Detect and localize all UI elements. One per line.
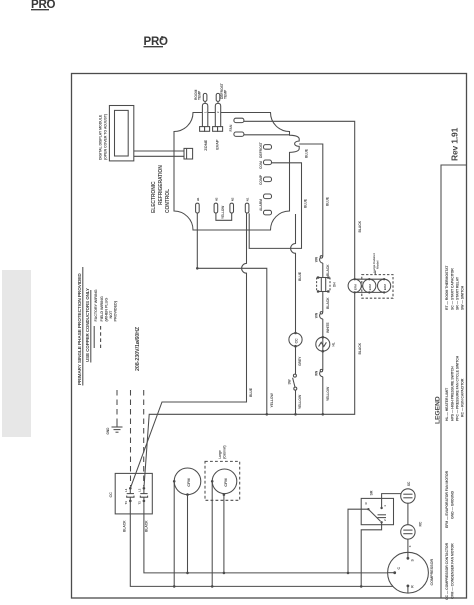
svg-text:FACTORY WIRING: FACTORY WIRING xyxy=(94,289,98,321)
svg-text:BLUE: BLUE xyxy=(303,198,307,208)
wire SC to RC xyxy=(407,503,409,525)
svg-text:WN: WN xyxy=(314,370,318,376)
display connector xyxy=(184,148,193,159)
svg-text:BLACK: BLACK xyxy=(326,297,330,309)
svg-text:BLACK: BLACK xyxy=(123,520,127,532)
contact L2 T2 xyxy=(143,487,146,490)
svg-text:(Cabinet): (Cabinet) xyxy=(222,445,226,458)
svg-text:SW: SW xyxy=(288,379,292,384)
svg-text:BLACK: BLACK xyxy=(145,520,149,532)
svg-text:GND — GROUND: GND — GROUND xyxy=(451,491,455,519)
svg-text:N1: N1 xyxy=(246,197,250,201)
defrost temp probe xyxy=(215,93,220,126)
wire DH to WN2 xyxy=(322,292,324,313)
CC coil chain xyxy=(291,214,296,414)
svg-text:RC — RUN CAPACITOR: RC — RUN CAPACITOR xyxy=(461,378,465,417)
CFM motor 1 xyxy=(173,468,201,586)
svg-text:SW — SWITCH: SW — SWITCH xyxy=(461,285,465,310)
svg-text:Rev 1.91: Rev 1.91 xyxy=(450,127,460,161)
yellow jumper H2-N2 xyxy=(216,213,232,220)
svg-text:DH: DH xyxy=(333,282,337,287)
svg-text:BLACK: BLACK xyxy=(326,264,330,276)
DH chain: WN connector 1 xyxy=(314,256,322,263)
wire blue tab to DH chain top xyxy=(299,144,323,257)
field wiring sample xyxy=(100,326,102,348)
svg-text:BLUE: BLUE xyxy=(326,196,330,206)
svg-text:YELLOW: YELLOW xyxy=(326,386,330,401)
svg-text:H1: H1 xyxy=(196,197,200,201)
svg-text:(OPEN COVER TO ADJUST): (OPEN COVER TO ADJUST) xyxy=(104,113,108,160)
svg-text:YELLOW: YELLOW xyxy=(298,394,302,409)
svg-text:WN: WN xyxy=(314,312,318,318)
legend box xyxy=(441,165,467,598)
logo PRO top-left xyxy=(31,0,56,11)
right column slots: DEFROST COM COMP ALARM xyxy=(264,145,272,150)
svg-text:PFC — PRESSURE FAN CYCLE SWITC: PFC — PRESSURE FAN CYCLE SWITCH xyxy=(456,355,460,421)
logo PRO mid-top xyxy=(144,36,169,48)
factory wiring sample xyxy=(93,326,95,348)
svg-text:YELLOW: YELLOW xyxy=(221,206,225,219)
run capacitor RC xyxy=(401,521,423,539)
dashed box large cabinet CFM xyxy=(205,461,240,500)
svg-text:CC: CC xyxy=(109,492,113,498)
svg-text:YELLOW: YELLOW xyxy=(270,393,274,408)
svg-text:NOT: NOT xyxy=(109,310,113,319)
wire FAN slot2 to connector tab xyxy=(244,134,290,136)
svg-text:FAN: FAN xyxy=(229,124,233,131)
svg-text:HL — HEATER LIMIT: HL — HEATER LIMIT xyxy=(445,387,449,421)
svg-text:CFM: CFM xyxy=(223,478,228,487)
svg-text:ELECTRONIC: ELECTRONIC xyxy=(151,181,157,213)
svg-text:208-230V/1ø/60HZ: 208-230V/1ø/60HZ xyxy=(135,326,141,371)
svg-text:TEMP: TEMP xyxy=(224,89,228,99)
EFM motor circles xyxy=(348,278,391,294)
svg-text:COM: COM xyxy=(259,161,263,169)
field wiring dashed leads xyxy=(116,390,118,424)
svg-text:WN: WN xyxy=(314,256,318,262)
ground GND xyxy=(106,424,123,435)
svg-text:WHITE: WHITE xyxy=(326,322,330,333)
WN connector 2 xyxy=(314,312,322,319)
svg-text:EVAP: EVAP xyxy=(214,139,219,150)
room temp probe xyxy=(202,93,207,126)
svg-text:GREY: GREY xyxy=(298,356,302,366)
compressor contactor CC box xyxy=(109,473,152,514)
main border frame xyxy=(72,74,467,599)
svg-text:USE COPPER CONDUCTORS ONLY: USE COPPER CONDUCTORS ONLY xyxy=(85,288,90,362)
svg-text:FIELD WIRING: FIELD WIRING xyxy=(100,296,104,321)
svg-text:L2: L2 xyxy=(138,488,142,492)
svg-text:HL: HL xyxy=(332,342,336,346)
control block outline U1 xyxy=(174,113,299,231)
svg-text:BLACK: BLACK xyxy=(358,342,362,354)
bus B from T1 xyxy=(130,514,408,587)
digital display module xyxy=(109,106,133,161)
svg-text:PRIMARY SINGLE PHASE PROTECTIO: PRIMARY SINGLE PHASE PROTECTION PROVIDED xyxy=(77,273,82,385)
svg-text:N2: N2 xyxy=(230,197,234,201)
svg-text:H2: H2 xyxy=(215,197,219,201)
svg-text:BLUE: BLUE xyxy=(298,271,302,281)
svg-text:CC — COMPRESSOR CONTACTOR: CC — COMPRESSOR CONTACTOR xyxy=(445,542,449,600)
svg-text:CFM: CFM xyxy=(186,478,191,487)
legend row 1 xyxy=(445,265,449,600)
svg-text:BLUE: BLUE xyxy=(249,387,253,397)
svg-text:LEGEND: LEGEND xyxy=(435,396,442,424)
legend row 2 xyxy=(451,268,455,599)
svg-text:EFM — EVAPORATOR FAN MOTOR: EFM — EVAPORATOR FAN MOTOR xyxy=(445,470,449,528)
svg-text:3: 3 xyxy=(47,0,50,6)
svg-text:CFM — CONDENSER FAN MOTOR: CFM — CONDENSER FAN MOTOR xyxy=(451,543,455,599)
wire SR 1 to SC xyxy=(382,494,401,508)
svg-text:Model: Model xyxy=(376,260,380,269)
wire SR 2 to bus B xyxy=(361,522,381,586)
svg-text:COMPRESSOR: COMPRESSOR xyxy=(430,559,434,586)
svg-text:SR: SR xyxy=(369,490,373,495)
svg-text:PROVIDED): PROVIDED) xyxy=(113,300,117,321)
svg-text:HPS — HIGH PRESSURE SWITCH: HPS — HIGH PRESSURE SWITCH xyxy=(451,366,455,421)
svg-text:T2: T2 xyxy=(138,501,142,505)
display cable xyxy=(134,150,184,152)
start relay SR box xyxy=(361,490,393,525)
wire COM slot loop xyxy=(249,163,301,249)
defrost heater DH xyxy=(317,276,337,292)
switch SW xyxy=(288,374,297,390)
wire WN3 to bus xyxy=(322,377,324,415)
svg-text:SR — START RELAY: SR — START RELAY xyxy=(456,276,460,310)
svg-text:RC: RC xyxy=(419,521,423,526)
svg-text:COMP: COMP xyxy=(259,174,263,185)
dashed box large cabinet EFM xyxy=(362,275,393,299)
bottom terminals H1 H2 N2 N1 xyxy=(196,203,200,213)
svg-text:(WHEN PLUG: (WHEN PLUG xyxy=(105,298,109,322)
WN connector 3 xyxy=(314,369,322,376)
svg-text:T1: T1 xyxy=(124,501,128,505)
svg-text:REFRIGERATION: REFRIGERATION xyxy=(158,165,164,205)
svg-text:BLACK: BLACK xyxy=(358,220,362,232)
svg-text:ALARM: ALARM xyxy=(259,199,263,211)
svg-text:GND: GND xyxy=(106,427,110,435)
contact L1 T1 xyxy=(129,487,132,490)
heater limit switch HL xyxy=(316,319,336,370)
svg-text:TEMP: TEMP xyxy=(198,90,202,100)
svg-text:EFM: EFM xyxy=(383,284,387,291)
wire RC to compressor S xyxy=(407,539,409,558)
scan shadow band xyxy=(2,270,31,437)
svg-text:L1: L1 xyxy=(124,488,128,492)
wire FAN slot1 to EFM chain xyxy=(244,121,355,279)
wire BLUE N1 down to CC L1 xyxy=(130,213,246,488)
CFM motor 2 (large cabinet) xyxy=(211,469,237,586)
start capacitor SC xyxy=(401,481,415,503)
defrost temp terminal block xyxy=(213,127,223,132)
svg-text:SC — START CAPACITOR: SC — START CAPACITOR xyxy=(451,268,455,310)
FAN slots xyxy=(234,118,244,122)
bus A from T2 xyxy=(144,514,395,573)
svg-text:DEFROST: DEFROST xyxy=(259,141,263,158)
svg-text:EFM: EFM xyxy=(368,284,372,291)
yellow bus xyxy=(144,292,355,488)
room temp terminal block xyxy=(200,127,210,132)
svg-text:BLUE: BLUE xyxy=(304,148,308,158)
svg-text:RT — ROOM THERMOSTAT: RT — ROOM THERMOSTAT xyxy=(445,265,449,310)
bus junction dots xyxy=(186,572,189,575)
wire WN1 to DH xyxy=(322,263,324,278)
svg-text:CC: CC xyxy=(294,338,298,344)
legend row 4 xyxy=(461,285,465,417)
svg-text:3: 3 xyxy=(161,36,164,42)
CC coil circle xyxy=(289,333,302,346)
svg-text:CONTROL: CONTROL xyxy=(165,189,171,213)
svg-text:ZONE: ZONE xyxy=(203,139,208,150)
legend row 3 xyxy=(456,276,460,421)
svg-text:SC: SC xyxy=(407,481,411,486)
svg-text:DIGITAL DISPLAY MODULE: DIGITAL DISPLAY MODULE xyxy=(99,114,103,160)
svg-text:EFM: EFM xyxy=(354,284,358,291)
wire H1 to yellow bus xyxy=(197,213,266,414)
wire SR R to bus A xyxy=(348,509,368,573)
compressor motor xyxy=(388,552,429,593)
junction dots on yellow bus xyxy=(266,413,269,416)
